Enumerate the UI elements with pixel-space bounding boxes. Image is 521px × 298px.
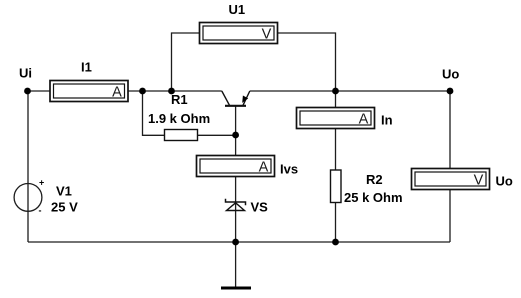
voltmeter U1 [200,23,278,44]
svg-text:+: + [39,178,44,188]
svg-text:Uo: Uo [496,174,513,189]
svg-text:25 k Ohm: 25 k Ohm [344,190,403,205]
resistor R2 [331,170,342,203]
node base/R1 junction dot [232,132,239,139]
svg-text:In: In [381,113,393,128]
wire U1 left lead [172,33,200,91]
node Uo junction dot [447,88,454,95]
svg-text:V: V [262,26,272,42]
ammeter Ivs [197,156,275,177]
node VS/ground junction dot [232,239,239,246]
zener diode VS [226,199,246,211]
emitter diagonal [243,91,250,105]
wire R1 right lead [198,134,236,136]
wire In to R2 [335,129,337,171]
transistor emitter arrow [242,96,248,103]
ammeter I1 [50,81,128,102]
svg-text:A: A [359,112,369,128]
collector diagonal [222,91,230,105]
node R1-top junction dot [139,88,146,95]
svg-text:Ui: Ui [19,66,32,81]
wire R2 to bottom rail [335,203,337,243]
node R2-bottom junction dot [332,239,339,246]
svg-text:A: A [112,85,122,101]
svg-text:I1: I1 [81,60,92,75]
node Ui junction dot [24,88,31,95]
wire left rail: Ui node down through V1 to bottom rail [27,91,29,242]
wire transistor base column to Ivs [235,106,237,156]
wire Ivs to bottom rail through VS [235,177,237,243]
wire top rail left: Ui node to I1 [28,90,51,92]
node U1-right/In junction dot [332,88,339,95]
svg-text:V1: V1 [56,184,72,199]
ammeter In [297,108,375,129]
node U1-left junction dot [168,88,175,95]
ground [221,287,251,290]
svg-text:R1: R1 [171,92,188,107]
svg-text:R2: R2 [366,172,383,187]
voltmeter Uo [412,169,490,190]
wire bottom rail [28,241,450,243]
voltage source V1 [14,184,42,212]
wire right rail lower: voltmeter Uo to bottom rail [449,190,451,243]
wire In top lead [335,91,337,108]
svg-text:1.9 k Ohm: 1.9 k Ohm [148,111,210,126]
svg-text:Ivs: Ivs [280,162,298,177]
svg-text:V: V [474,173,484,189]
svg-text:A: A [259,160,269,176]
wire R1 left lead [143,91,165,135]
svg-text:VS: VS [251,200,269,215]
wire right rail upper: Uo node down to voltmeter Uo [449,91,451,169]
wire top rail middle: I1 to transistor collector [128,90,222,92]
svg-text:Uo: Uo [442,67,459,82]
wire U1 right lead [278,33,336,91]
svg-text:U1: U1 [229,2,246,17]
base bar [225,105,246,107]
svg-text:-: - [39,206,42,216]
svg-text:25 V: 25 V [51,200,78,215]
transistor Q1 (PNP) [222,91,250,106]
wire top rail right: transistor emitter to Uo node [250,90,450,92]
resistor R1 [165,130,198,141]
wire ground lead [235,242,237,287]
